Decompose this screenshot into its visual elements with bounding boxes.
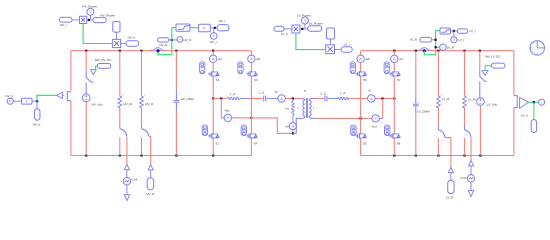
wire Lt2 to iS [349, 98, 368, 100]
svg-text:LV_V: LV_V [281, 32, 288, 36]
wire ampLV top [513, 51, 515, 96]
wire RLV mid [437, 108, 439, 127]
svg-text:0.04: 0.04 [132, 178, 138, 182]
node bottom bus junctions LV [393, 154, 395, 156]
resistor HV_R [140, 96, 144, 108]
svg-text:HV_R: HV_R [146, 192, 155, 196]
switch breaker HV_R [141, 125, 143, 128]
svg-text:LV_Cfilter: LV_Cfilter [417, 109, 430, 113]
ammeter iS [368, 95, 375, 102]
switch breaker HV_Rt [119, 125, 121, 128]
gate driver S7 [384, 62, 389, 74]
wire leg1 stub HV [212, 51, 214, 56]
amplifier HV source [57, 92, 63, 98]
wire mult out LV [300, 28, 308, 30]
wire to scope LV_I [453, 31, 455, 37]
svg-text:Ia3: Ia3 [256, 57, 260, 61]
goto tag HV_Power [93, 18, 106, 23]
ammeter iP [278, 95, 285, 102]
wire S3 to node b [250, 77, 252, 118]
wire vm to gain HV [13, 100, 21, 102]
gate driver S3 [238, 62, 243, 74]
gain K HV [199, 24, 211, 32]
wire leg2 stub LV [393, 51, 395, 56]
switch breaker LV_R [437, 126, 439, 129]
wire green LV mult [296, 33, 326, 50]
transistor S3 [250, 71, 251, 72]
svg-text:HV_I: HV_I [219, 19, 226, 23]
wire HV bottom bus [71, 155, 251, 157]
wire RtLV top [464, 51, 466, 96]
wire mult2 out LV [335, 48, 342, 50]
ammeter Ia1 [210, 55, 217, 62]
svg-text:iS: iS [368, 89, 371, 93]
svg-text:+: + [234, 121, 236, 124]
svg-text:LV_R: LV_R [447, 45, 455, 49]
wire LVV to mult [284, 28, 292, 30]
svg-text:LV_R: LV_R [446, 196, 454, 200]
svg-text:HV_V: HV_V [6, 94, 14, 98]
transistor S1 [212, 71, 213, 72]
wire Lm to iM [292, 115, 294, 123]
svg-text:Ia5: Ia5 [366, 57, 370, 61]
wire return to transformer [251, 118, 293, 133]
wire amp col bottom HV [70, 101, 72, 156]
wire LV bottom bus [361, 155, 514, 157]
switch SW_LV_DC [479, 68, 481, 76]
resistor LV_Rt [463, 96, 467, 108]
wire Vcd up to node d [382, 99, 384, 119]
transistor S6 [359, 133, 360, 134]
wire green swLV [485, 66, 491, 71]
transistor S8 [393, 133, 394, 134]
clock [530, 41, 544, 55]
svg-text:+: + [122, 94, 124, 97]
from tag HV_R [158, 38, 169, 42]
transistor S7 [393, 71, 394, 72]
wire capLV top [415, 51, 417, 97]
node top bus junctions HV [85, 50, 87, 52]
svg-text:S8: S8 [397, 141, 401, 145]
resistor LV_R [437, 96, 441, 108]
wire Ia5 to S5 [360, 63, 362, 71]
svg-text:LV_Power: LV_Power [309, 22, 323, 26]
wire tag to node [169, 39, 177, 41]
wire gain to node HV_V [32, 100, 39, 102]
from tag HV_I [60, 17, 73, 22]
wire iP to Tr [285, 98, 301, 100]
wire S5 to node c [360, 77, 362, 118]
wire R to bus HV [141, 137, 143, 155]
svg-text:S2: S2 [215, 141, 219, 145]
node a [212, 97, 214, 99]
scope LV_Power [301, 17, 308, 24]
svg-text:HV_Cfilter: HV_Cfilter [181, 97, 195, 101]
wire green HV_V to mult [83, 24, 112, 44]
wire srcLV bottom [479, 105, 481, 155]
node top bus junctions LV [393, 50, 395, 52]
transistor S4 [250, 133, 251, 134]
gate driver S4 [241, 125, 246, 135]
wire capLV bottom [415, 107, 417, 114]
svg-text:Ia7: Ia7 [399, 57, 403, 61]
wire src col top HV [85, 51, 87, 70]
current source 0.02 branch [468, 161, 473, 166]
wire S2 to bus [212, 139, 214, 155]
svg-text:iP: iP [275, 90, 278, 94]
scope HV_Power [87, 8, 94, 15]
filter block HV [176, 24, 190, 31]
capacitor LV_Cfilter [413, 103, 419, 105]
voltmeter Vcd [361, 117, 372, 119]
gate driver S8 [385, 125, 390, 135]
goto tag HV_I [217, 25, 229, 31]
inductor L_t1 [228, 97, 240, 100]
gate driver S5 [350, 62, 355, 74]
capacitor C_t1 [263, 96, 265, 102]
wire tagLVR to node [432, 39, 436, 41]
circle LV_V meter [539, 99, 545, 105]
ammeter Ia5 [357, 55, 364, 62]
wire R top HV [141, 51, 143, 96]
wire leg1 node a to S2 [212, 99, 214, 133]
wire sec to Ct2 [316, 98, 324, 100]
svg-text:LV_Rt: LV_Rt [468, 97, 476, 101]
wire filter to gain HV [190, 27, 199, 29]
wire srcLV top [479, 51, 481, 69]
wire Vab tap [220, 99, 222, 118]
multiplier X2 HV [112, 39, 120, 47]
svg-text:HV_Vdc: HV_Vdc [92, 103, 104, 107]
svg-text:HV_R: HV_R [145, 102, 154, 106]
wire iM to return [292, 130, 294, 134]
relay HV_R [177, 37, 183, 43]
goto tag LV_V vert [533, 102, 535, 119]
goto tag LV_Power [308, 26, 322, 32]
svg-text:HV_V: HV_V [128, 36, 136, 40]
svg-text:S3: S3 [254, 78, 258, 82]
from tag HV_V top [126, 41, 139, 47]
filter block LV [440, 28, 450, 34]
svg-text:1: 1 [313, 106, 315, 110]
svg-text:Vcd: Vcd [372, 125, 377, 129]
capacitor C_t2 [324, 96, 326, 102]
switch breaker LV_Rt [464, 126, 466, 129]
switch SW_HV_DC [85, 69, 87, 77]
wire node c to S6 [360, 118, 362, 132]
gate driver S6 [351, 125, 356, 135]
svg-text:LV_R: LV_R [410, 38, 418, 42]
wire S4 to bus [250, 139, 252, 155]
svg-text:S7: S7 [397, 78, 401, 82]
svg-text:LV_V: LV_V [521, 114, 528, 118]
wire to scope HV_I [213, 28, 215, 33]
wire green sw HV [95, 66, 97, 71]
amplifier LV source [514, 95, 517, 108]
wire Ia3 to S3 [250, 63, 252, 71]
wire Ct1 to iP [267, 98, 278, 100]
wire node to relay LV [436, 46, 440, 48]
wire amp col top HV [70, 51, 72, 91]
ammeter iM [289, 123, 296, 130]
wire RLV top [437, 51, 439, 96]
gate driver S1 [200, 62, 205, 74]
from tag LV_R [420, 37, 432, 42]
svg-text:4: 4 [297, 106, 299, 110]
svg-text:HV_I: HV_I [60, 23, 67, 27]
wire src col bottom HV [85, 102, 87, 156]
svg-text:+: + [144, 94, 146, 97]
svg-text:>: > [541, 100, 543, 104]
svg-text:HV_R: HV_R [159, 43, 168, 47]
wire Ia1 to S1 [212, 63, 214, 71]
svg-text:C_t1: C_t1 [258, 91, 264, 95]
wire node a rail [213, 98, 227, 100]
wire RLV to bus [437, 138, 439, 155]
wire mult out HV [87, 19, 93, 21]
wire mult2 out HV [121, 43, 126, 45]
wire green amp LV [528, 101, 538, 103]
wire breaker throw LV_Rt [470, 138, 472, 161]
svg-text:S6: S6 [363, 141, 367, 145]
multiplier X1 LV [292, 25, 300, 33]
wire green switch LV [424, 31, 440, 55]
wire Lt1 to Ct1 [240, 98, 250, 100]
multiplier X1 HV [80, 16, 87, 23]
svg-text:iM: iM [286, 124, 290, 128]
relay LV_R [440, 44, 446, 50]
svg-text:HV_R: HV_R [183, 38, 192, 42]
svg-text:LV_R: LV_R [442, 97, 450, 101]
svg-text:L_t1: L_t1 [230, 92, 236, 96]
svg-text:HV_V: HV_V [33, 122, 41, 126]
svg-text:>: > [442, 45, 444, 49]
transistor S5 [359, 71, 360, 72]
svg-text:S1: S1 [216, 78, 220, 82]
wire leg1 stub LV [360, 51, 362, 56]
svg-text:HV_Power: HV_Power [82, 4, 97, 8]
wire S6 to bus [360, 139, 362, 155]
wire green switch HV [158, 28, 176, 55]
wire cap top HV [175, 51, 177, 90]
ammeter Ia7 [391, 55, 398, 62]
gain K2 HV [22, 98, 33, 104]
wire Rt mid HV [119, 108, 121, 126]
goto tag SW_LV_DC [492, 63, 505, 68]
node bottom bus junctions HV [85, 154, 87, 156]
wire Rt top HV [119, 51, 121, 96]
wire breaker throw LV_R [445, 138, 451, 168]
scope LV_I [451, 37, 457, 43]
svg-text:Tr: Tr [304, 89, 307, 93]
svg-text:S4: S4 [254, 141, 258, 145]
wire Ct2 to Lt2 [328, 98, 338, 100]
block vertical HV [113, 22, 120, 33]
wire filter out LV [451, 30, 458, 32]
multiplier X2 LV [326, 45, 335, 54]
ammeter Ia3 [248, 55, 255, 62]
svg-text:0.02: 0.02 [461, 176, 467, 180]
goto tag HV_R branch [148, 165, 153, 170]
svg-text:+: + [381, 121, 383, 124]
wire S1 to node a [212, 77, 214, 98]
svg-text:+: + [418, 101, 420, 104]
block vertical LV [327, 28, 335, 39]
svg-text:HV_Power: HV_Power [100, 14, 115, 18]
from tag LV_V [274, 26, 284, 31]
svg-text:SW_HV_DC: SW_HV_DC [95, 58, 113, 62]
svg-text:LV_I: LV_I [344, 42, 350, 46]
goto tag LV_I [341, 47, 352, 53]
goto tag SW_HV_DC [97, 64, 110, 69]
source HV_Vdc [82, 94, 90, 102]
svg-text:Ia1: Ia1 [218, 57, 222, 61]
svg-text:L_t2: L_t2 [340, 91, 346, 95]
inductor Lm [292, 99, 294, 102]
node c [360, 117, 362, 119]
resistor HV_Rt [118, 96, 122, 108]
capacitor HV_Cfilter [174, 100, 180, 102]
inductor L_t2 [338, 97, 349, 100]
wire R mid HV [141, 108, 143, 126]
wire gain out HV [210, 27, 217, 29]
wire iS to node d [375, 98, 394, 100]
svg-text:SW_LV_DC: SW_LV_DC [485, 55, 500, 59]
wire node d to S8 [393, 99, 395, 133]
wire Rt to bus HV [119, 137, 121, 155]
svg-text:S5: S5 [363, 78, 367, 82]
svg-text:LV_I: LV_I [458, 38, 464, 42]
wire Ia7 to S7 [393, 63, 395, 71]
svg-text:C_t2: C_t2 [320, 92, 326, 96]
transistor S2 [212, 133, 213, 134]
node b [250, 117, 252, 119]
svg-text:Vab: Vab [224, 108, 229, 112]
wire S7 to node d [393, 77, 395, 98]
goto tag HV_V vert [36, 101, 38, 109]
svg-text:HV_Rt: HV_Rt [123, 102, 132, 106]
svg-text:Lm: Lm [285, 107, 290, 111]
wire leg2 stub HV [250, 51, 252, 56]
switch SW_HV on bus [153, 48, 162, 51]
goto tag LV_R branch [448, 168, 453, 173]
scope HV_I [211, 33, 218, 40]
wire RtLV mid [464, 108, 466, 127]
wire primary bottom [293, 116, 305, 133]
current source 0.04 branch [124, 165, 129, 170]
switch SW_LV on bus [420, 48, 429, 51]
svg-text:LV_I: LV_I [470, 29, 476, 33]
wire S8 to bus [393, 139, 395, 155]
wire node b to S4 [250, 118, 252, 133]
wire HV top bus [71, 50, 252, 52]
wire green to amp HV [37, 95, 56, 101]
svg-text:HV_I: HV_I [210, 40, 217, 44]
svg-text:LV_Vdc: LV_Vdc [487, 103, 498, 107]
wire breaker2 throw HV [149, 137, 151, 165]
wire LV top bus [361, 50, 514, 52]
wire cap bottom HV [175, 103, 177, 111]
wire ampLV bottom [513, 108, 515, 156]
wire RtLV to bus [464, 138, 466, 155]
wire HV_I to mult [72, 19, 80, 21]
gate driver S2 [202, 125, 207, 135]
svg-text:+: + [179, 93, 181, 96]
goto tag LV_I top [457, 29, 467, 33]
source LV_Vdc [477, 98, 485, 106]
wire breaker1 throw HV [126, 137, 128, 165]
wire secondary bottom [309, 116, 316, 118]
svg-text:>: > [179, 38, 181, 42]
wire Vab to node b [236, 117, 252, 119]
